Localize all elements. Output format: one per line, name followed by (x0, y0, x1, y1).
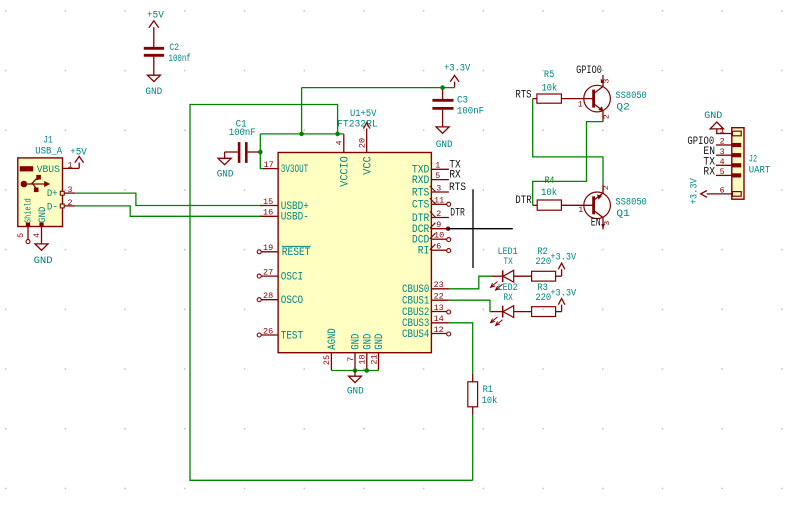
svg-text:15: 15 (263, 197, 273, 207)
LED LED1 TX (491, 246, 532, 290)
svg-text:VCCIO: VCCIO (339, 156, 351, 187)
resistor R4 (533, 175, 594, 210)
svg-text:3: 3 (436, 183, 441, 193)
svg-text:GND: GND (38, 207, 49, 223)
resistor R2 (532, 246, 562, 281)
wire Q2 emitter down-left-down to DTR node (533, 122, 603, 206)
svg-text:GND: GND (145, 86, 162, 98)
svg-text:9: 9 (436, 220, 441, 230)
svg-text:6: 6 (436, 242, 441, 252)
pin 1 VBUS of J1 (62, 161, 79, 171)
power +3.3V (at C3) (450, 75, 459, 87)
connector J1 USB_A body (18, 134, 63, 226)
wire D- from J1 pin2 to U1 pin16 (75, 206, 262, 216)
svg-text:21: 21 (369, 354, 379, 364)
svg-text:26: 26 (263, 326, 273, 336)
svg-text:4: 4 (32, 233, 42, 238)
svg-text:17: 17 (264, 160, 274, 170)
pin 27 OSCI (unconnected) (257, 268, 303, 284)
svg-text:+3.3V: +3.3V (550, 288, 576, 300)
svg-text:Q2: Q2 (616, 102, 629, 114)
svg-text:GND: GND (704, 110, 722, 122)
svg-text:GND: GND (351, 333, 363, 349)
pin 19 ~RESET~ (unconnected) (257, 243, 311, 259)
pin 2 of J2 (GPIO0) (716, 137, 741, 147)
wire V1 (rail A down to VCCIO rail) (301, 88, 303, 134)
wire CBUS0 to LED1 (449, 276, 491, 289)
pin 3 of J2 (EN) (716, 147, 741, 158)
svg-text:OSCI: OSCI (281, 271, 303, 283)
wire VCCIO rail C (260, 133, 344, 135)
pin 18 GND (bottom) (358, 333, 375, 370)
wire rail B (left loop: down, across bottom, up to y=104.5, right, down to VCCIO rail) (190, 105, 473, 481)
svg-text:DTR: DTR (450, 208, 465, 220)
pin 6 RI (unconnected) (418, 242, 451, 258)
svg-text:11: 11 (434, 196, 444, 206)
svg-text:5: 5 (435, 171, 440, 181)
wire C1 junction down to U1 pin17 (260, 152, 264, 169)
svg-text:GND: GND (217, 169, 234, 181)
pin 17 3V3OUT (263, 160, 308, 176)
junction (rail B / rail C) (335, 132, 340, 137)
svg-text:TEST: TEST (281, 330, 304, 342)
svg-text:100nF: 100nF (229, 127, 256, 139)
connector J2 UART body (732, 128, 770, 200)
wire CBUS1 to LED2 (449, 300, 491, 311)
power +3.3V (at R3) (558, 299, 565, 312)
pin 1 of J2 (GND) (716, 125, 741, 136)
svg-text:RTS: RTS (515, 90, 532, 102)
svg-text:28: 28 (263, 291, 273, 301)
svg-text:3: 3 (68, 185, 73, 195)
pin 10 DCD (unconnected) (412, 231, 451, 247)
svg-text:25: 25 (322, 355, 332, 365)
svg-text:2: 2 (68, 198, 73, 208)
svg-text:1: 1 (435, 161, 440, 171)
svg-text:5: 5 (16, 233, 26, 238)
svg-text:GND: GND (374, 333, 386, 349)
svg-text:22: 22 (434, 292, 444, 302)
pin 2 DTR (412, 209, 449, 225)
wire RTS node down and across to Q1 collector (533, 99, 603, 185)
svg-text:DTR: DTR (515, 195, 532, 207)
junction (pin 7 / GND bus) (353, 368, 358, 373)
junction (pin 18 / GND bus) (365, 368, 370, 373)
svg-text:VCC: VCC (362, 156, 374, 175)
svg-text:1: 1 (68, 161, 73, 171)
pin 1 TXD (412, 161, 449, 177)
svg-text:RX: RX (449, 170, 461, 182)
IC U1 FT232RL body (278, 108, 431, 353)
svg-text:VBUS: VBUS (37, 164, 60, 176)
transistor Q2 SS8050 (578, 75, 647, 122)
svg-text:5: 5 (720, 167, 725, 177)
pin 26 TEST (unconnected) (257, 326, 303, 342)
wire GND bus under U1 (331, 370, 378, 372)
pin 5 RXD (412, 171, 449, 187)
resistor R3 (532, 282, 562, 317)
pin 16 USBD- (260, 208, 309, 224)
svg-text:220: 220 (535, 256, 551, 268)
svg-text:CBUS0: CBUS0 (402, 284, 429, 296)
power +5V (at C2) (149, 21, 159, 47)
ground (below C3) (436, 127, 449, 133)
svg-text:6: 6 (720, 186, 725, 196)
svg-text:GND: GND (436, 139, 453, 151)
pin 23 CBUS0 (402, 280, 449, 296)
pin 7 GND (bottom) (346, 333, 363, 370)
svg-text:16: 16 (263, 208, 273, 218)
svg-text:UART: UART (749, 164, 770, 176)
junction (pin 9 / graphic line) (446, 227, 450, 231)
ground (below J1) (35, 244, 48, 250)
svg-text:SS8050: SS8050 (615, 197, 646, 209)
svg-text:OSCO: OSCO (281, 295, 304, 307)
svg-text:D+: D+ (47, 188, 58, 200)
power +3.3V (at J2 pin 6, pointing left) (701, 191, 711, 198)
svg-text:10k: 10k (541, 187, 557, 199)
svg-text:+5V: +5V (147, 10, 165, 22)
ground (below U1) (349, 371, 362, 383)
pin 21 GND (bottom) (369, 333, 386, 370)
pin 9 DCR (412, 220, 448, 236)
svg-text:RXD: RXD (412, 175, 430, 187)
svg-text:1: 1 (578, 205, 583, 215)
svg-text:3V3OUT: 3V3OUT (281, 164, 309, 176)
svg-text:CTS: CTS (412, 200, 430, 212)
svg-text:+3.3V: +3.3V (444, 63, 471, 75)
USB trident icon (21, 175, 51, 192)
svg-text:CBUS4: CBUS4 (402, 329, 430, 341)
power +3.3V (at R2) (558, 263, 565, 276)
pin 4 VCCIO (top) (335, 134, 352, 187)
svg-text:GND: GND (362, 333, 374, 349)
pin 4 of J2 (TX) (716, 157, 741, 168)
svg-text:20: 20 (357, 138, 367, 148)
pin 20 VCC (top) (357, 128, 374, 174)
svg-text:RTS: RTS (412, 187, 430, 199)
capacitor C1 (225, 142, 261, 163)
pin 11 CTS (unconnected) (412, 196, 451, 212)
pin 12 CBUS4 (unconnected) (402, 325, 451, 341)
pin 2 D- of J1 (60, 198, 75, 208)
ground (at J2 pin 1) (710, 122, 723, 133)
svg-text:Q1: Q1 (616, 208, 629, 220)
wire D+ from J1 pin3 to U1 pin15 (75, 193, 262, 205)
ground (below C2) (147, 75, 160, 81)
pin 28 OSCO (unconnected) (257, 291, 303, 307)
svg-text:RX: RX (504, 292, 514, 304)
svg-text:14: 14 (434, 314, 444, 324)
pin 22 CBUS1 (402, 292, 449, 308)
svg-text:2: 2 (720, 137, 725, 147)
svg-text:USB_A: USB_A (35, 145, 63, 157)
svg-text:GND: GND (34, 255, 53, 267)
ground (at C1) (218, 152, 231, 165)
pin 15 USBD+ (260, 197, 309, 213)
svg-text:4: 4 (720, 157, 725, 167)
wire CBUS3 down to R1 (449, 323, 473, 374)
svg-text:1: 1 (578, 99, 583, 109)
svg-text:2: 2 (603, 114, 611, 119)
pin 6 of J2 (+3.3V) (710, 186, 741, 197)
capacitor C2 (144, 48, 164, 75)
junction (C3 / 3.3V rail) (440, 85, 445, 90)
svg-text:Shield: Shield (23, 198, 34, 223)
svg-text:RTS: RTS (449, 182, 466, 194)
pin 5 Shield of J1 (unconnected) (16, 223, 30, 244)
svg-text:RESET: RESET (282, 247, 311, 259)
svg-text:GPIO0: GPIO0 (576, 65, 602, 77)
svg-text:SS8050: SS8050 (615, 90, 646, 102)
pin 14 CBUS3 (402, 314, 449, 330)
svg-text:19: 19 (263, 243, 273, 253)
svg-text:13: 13 (434, 303, 444, 313)
svg-text:3: 3 (604, 220, 612, 225)
svg-text:DTR: DTR (412, 213, 430, 225)
junction (V1 / rail C) (299, 132, 304, 137)
graphic line horizontal (448, 228, 513, 230)
svg-text:18: 18 (358, 354, 368, 364)
svg-text:FT232RL: FT232RL (337, 119, 378, 131)
svg-text:AGND: AGND (327, 328, 339, 350)
svg-text:100nF: 100nF (457, 106, 484, 118)
graphic line vertical (472, 189, 474, 268)
pin 25 AGND (bottom) (322, 328, 339, 371)
svg-text:7: 7 (346, 357, 356, 362)
svg-text:CBUS2: CBUS2 (402, 307, 429, 319)
capacitor C3 (432, 88, 453, 127)
resistor R5 (533, 69, 594, 103)
svg-text:10: 10 (434, 231, 444, 241)
wire C1 junction up to 3.3V rail (259, 134, 261, 152)
svg-text:RI: RI (418, 246, 430, 258)
svg-text:USBD-: USBD- (281, 212, 309, 224)
svg-text:+5V: +5V (70, 147, 87, 159)
svg-text:CBUS1: CBUS1 (402, 296, 430, 308)
svg-text:GND: GND (347, 386, 364, 398)
svg-text:12: 12 (434, 325, 444, 335)
svg-text:R4: R4 (545, 175, 555, 187)
svg-text:220: 220 (535, 292, 551, 304)
svg-text:4: 4 (335, 140, 345, 145)
LED LED2 RX (491, 282, 532, 326)
svg-text:23: 23 (434, 280, 444, 290)
wire 3.3V rail A (C3 to V1 top) (302, 87, 455, 89)
svg-text:R5: R5 (544, 69, 554, 81)
svg-text:10k: 10k (542, 82, 558, 94)
svg-text:2: 2 (436, 209, 441, 219)
svg-text:EN: EN (591, 217, 601, 229)
svg-text:+3.3V: +3.3V (688, 178, 700, 205)
svg-text:2: 2 (603, 185, 611, 190)
pin 5 of J2 (RX) (716, 167, 741, 178)
svg-text:+3.3V: +3.3V (550, 252, 576, 264)
svg-text:3: 3 (604, 78, 612, 83)
svg-text:TX: TX (504, 256, 514, 268)
power +5V (at U1 pin 20) (363, 123, 370, 129)
pin 3 D+ of J1 (60, 185, 75, 195)
junction (C1 / 3V3OUT) (258, 150, 263, 155)
transistor Q1 SS8050 (578, 185, 647, 230)
svg-text:10k: 10k (482, 395, 498, 407)
pin 4 GND of J1 (32, 223, 44, 244)
svg-text:27: 27 (263, 268, 273, 278)
power +5V (at J1 pin 1) (75, 156, 84, 168)
svg-text:3: 3 (720, 147, 725, 157)
resistor R1 (468, 382, 498, 481)
pin 3 RTS (412, 183, 449, 199)
svg-text:100nf: 100nf (169, 53, 191, 65)
pin 13 CBUS2 (unconnected) (402, 303, 451, 319)
svg-text:RX: RX (703, 166, 715, 178)
